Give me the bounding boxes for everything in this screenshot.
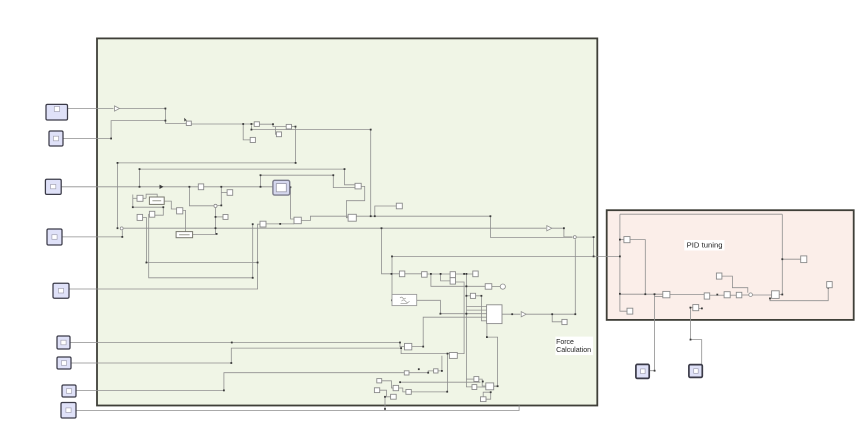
svg-text:Calculation: Calculation bbox=[556, 345, 591, 354]
svg-text:PID tuning: PID tuning bbox=[687, 240, 723, 249]
